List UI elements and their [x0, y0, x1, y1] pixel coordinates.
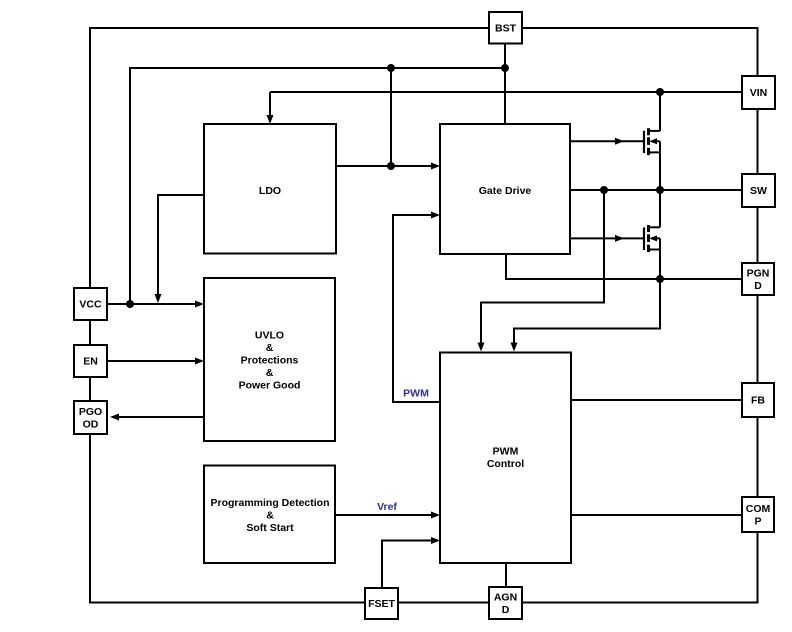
svg-text:&: &: [266, 342, 274, 354]
wire Q1 source to SW rail: [659, 152, 661, 190]
svg-text:FB: FB: [751, 395, 765, 407]
node junction dot BST rail / LDO drop: [387, 64, 395, 72]
wire VCC pin to UVLO: [107, 303, 201, 305]
node junction dot BST rail / BST drop: [501, 64, 509, 72]
svg-text:Power Good: Power Good: [239, 379, 301, 391]
wire LDO output to Gate Drive: [336, 165, 437, 167]
svg-text:&: &: [266, 510, 274, 522]
wire LDO output down to VCC node: [158, 195, 204, 294]
svg-text:Vref: Vref: [377, 501, 397, 513]
wire UVLO to PGOOD pin: [113, 416, 204, 418]
pin EN: [74, 345, 107, 377]
node junction dot VIN rail / Q1 drain: [656, 88, 664, 96]
svg-text:PWM: PWM: [403, 388, 429, 400]
node junction dot LDO output / drop: [387, 162, 395, 170]
wire PGND sense to PWM Control: [514, 279, 660, 344]
wire PWM Control to FB pin: [571, 399, 742, 401]
svg-text:D: D: [502, 604, 510, 616]
block Gate Drive: [440, 124, 570, 254]
svg-text:D: D: [754, 280, 762, 292]
wire Gate Drive to Q2 gate: [570, 237, 644, 239]
svg-text:COM: COM: [746, 503, 771, 515]
svg-text:UVLO: UVLO: [255, 329, 284, 341]
svg-text:OD: OD: [83, 418, 99, 430]
wire Q1 drain from VIN rail: [659, 92, 661, 131]
arrowhead into PWM Control (FSET): [431, 537, 440, 544]
arrowhead onto VCC node (LDO output): [155, 294, 162, 303]
svg-text:Soft Start: Soft Start: [246, 522, 294, 534]
pin SW: [742, 174, 775, 207]
arrowhead into PWM Control top (PGND sense): [511, 343, 518, 352]
pin VCC: [74, 288, 107, 320]
wire SW sense to PWM Control: [481, 190, 604, 344]
node junction dot SW rail / Q1 source: [656, 186, 664, 194]
arrowhead into UVLO (EN): [195, 358, 204, 365]
wire drop from BST rail to LDO output node: [390, 68, 392, 166]
arrowhead into Gate Drive (PWM): [431, 212, 440, 219]
wire Vref to PWM Control: [335, 514, 437, 516]
svg-text:P: P: [754, 515, 761, 527]
arrowhead on Q2 gate wire: [615, 235, 624, 242]
svg-text:PGO: PGO: [79, 406, 102, 418]
svg-text:Gate Drive: Gate Drive: [479, 185, 532, 197]
block UVLO Protections Power Good: [204, 278, 335, 441]
svg-text:FSET: FSET: [368, 598, 395, 610]
pin FB: [742, 383, 774, 417]
arrowhead into LDO top (VIN): [267, 115, 274, 124]
svg-text:LDO: LDO: [259, 185, 281, 197]
wire SW rail from Gate Drive to SW pin: [570, 189, 742, 191]
svg-text:PWM: PWM: [493, 446, 519, 458]
wire PWM from PWM Control to Gate Drive: [393, 215, 440, 402]
block Programming Detection Soft Start: [204, 466, 335, 564]
pin PGND: [742, 263, 774, 295]
wire VCC to BST rail (y=68): [130, 68, 505, 304]
pin PGOOD: [74, 401, 107, 434]
transistor Q1 high-side MOSFET: [644, 128, 660, 155]
wire PWM Control to COMP pin: [571, 514, 742, 516]
svg-text:BST: BST: [495, 22, 517, 34]
arrowhead into UVLO (VCC): [195, 301, 204, 308]
arrowhead into PWM Control top (SW sense): [478, 343, 485, 352]
wire IC boundary border: [90, 28, 758, 603]
svg-text:AGN: AGN: [494, 591, 517, 603]
node junction dot PGND rail / Q2 source: [656, 275, 664, 283]
pin VIN: [742, 76, 775, 109]
svg-text:EN: EN: [83, 356, 98, 368]
wire Gate Drive bottom to PGND pin: [506, 254, 742, 279]
svg-text:Protections: Protections: [241, 354, 299, 366]
arrowhead into PGOOD pin (UVLO): [110, 414, 119, 421]
svg-text:PGN: PGN: [747, 267, 770, 279]
pin BST: [489, 12, 522, 44]
arrowhead into Gate Drive (LDO output): [431, 163, 440, 170]
node junction dot VCC line / VCC rail: [126, 300, 134, 308]
wire Gate Drive to Q1 gate: [570, 140, 644, 142]
wire VIN rail (y=92): [270, 91, 742, 93]
svg-text:VIN: VIN: [750, 87, 768, 99]
arrowhead on Q1 gate wire: [615, 138, 624, 145]
pin COMP: [742, 497, 774, 532]
svg-text:VCC: VCC: [79, 299, 102, 311]
pin AGND: [489, 587, 522, 619]
wire EN pin to UVLO: [107, 360, 201, 362]
pin FSET: [365, 588, 398, 619]
block PWM Control: [440, 353, 571, 564]
block LDO: [204, 124, 336, 254]
svg-text:&: &: [266, 367, 274, 379]
transistor Q2 low-side MOSFET: [644, 225, 660, 252]
svg-text:SW: SW: [750, 185, 767, 197]
svg-text:Control: Control: [487, 458, 524, 470]
wire VIN down into LDO top: [269, 92, 271, 115]
node junction dot SW rail / SW sense: [600, 186, 608, 194]
wire FSET to PWM Control: [382, 541, 437, 589]
wire PWM Control bottom to AGND pin: [505, 563, 507, 587]
wire BST to Gate Drive top: [504, 44, 506, 125]
wire Q2 source to PGND rail: [659, 250, 661, 280]
wire Q2 drain from SW rail: [659, 190, 661, 227]
svg-text:Programming Detection: Programming Detection: [210, 497, 329, 509]
arrowhead into PWM Control (Vref): [431, 512, 440, 519]
